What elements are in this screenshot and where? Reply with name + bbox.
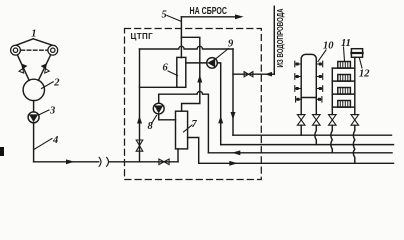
pipe from exchanger 6 bottom to left riser	[140, 86, 177, 88]
right rail	[354, 57, 356, 114]
line 2 return	[221, 144, 394, 146]
CTPG box dashed border	[125, 29, 262, 180]
svg-text:7: 7	[192, 119, 198, 130]
pipe 4 vertical	[33, 123, 35, 162]
flow arrow down on water riser	[231, 112, 236, 120]
arrow on discharge line	[235, 14, 244, 19]
valve on left riser	[136, 140, 143, 151]
radiator rung 3	[332, 93, 355, 95]
waterworks pipe vertical	[273, 6, 275, 74]
pump 3 (circle with triangle)	[28, 112, 39, 123]
left rail to line 3 with jogs	[331, 125, 333, 153]
label 3	[39, 106, 55, 117]
flow arrow into box	[265, 72, 273, 77]
line well A to apex	[16, 39, 33, 45]
radiator rung 2	[332, 80, 355, 82]
label 8	[148, 116, 157, 133]
svg-text:4: 4	[52, 135, 58, 146]
heat exchanger 6	[177, 57, 186, 87]
line well B to apex	[33, 39, 52, 45]
left rail	[331, 68, 333, 115]
arrow left on line 3	[232, 150, 241, 155]
pump 8 riser and H1 header	[159, 91, 209, 152]
pipe break symbol	[99, 157, 108, 166]
valve on leg 2	[313, 115, 321, 126]
pump 9 (circle with triangle)	[207, 58, 218, 69]
svg-text:ЦТПГ: ЦТПГ	[131, 32, 154, 41]
valve on leg 1	[297, 115, 305, 126]
discharge riser	[180, 17, 182, 58]
pump 9 outlet to line 2 riser	[217, 63, 220, 145]
pump 8 (circle with triangle)	[153, 103, 164, 114]
valve on radiator left rail	[329, 115, 337, 126]
valve on water inlet	[244, 72, 253, 77]
svg-text:9: 9	[228, 39, 234, 50]
radiator 1	[338, 62, 351, 69]
pipe exchanger 6 to pump 9	[186, 62, 207, 64]
tank nozzles right	[316, 61, 322, 102]
svg-text:5: 5	[162, 10, 167, 21]
label 1	[31, 29, 36, 40]
flow arrow up on left riser	[137, 116, 142, 124]
radiator 2	[338, 75, 351, 82]
label 4	[34, 135, 59, 150]
valve on suction pipe A	[19, 64, 26, 73]
scan mark left edge	[0, 147, 4, 156]
dashed link between wells	[21, 49, 48, 51]
flow arrow on pipe 4	[66, 159, 75, 164]
svg-text:6: 6	[163, 63, 169, 74]
branch to rect7 feed	[181, 37, 199, 111]
radiator 4	[338, 101, 351, 108]
svg-text:ИЗ ВОДОПРОВОДА: ИЗ ВОДОПРОВОДА	[276, 8, 285, 67]
suction pipe A (well A to deaerator)	[18, 55, 30, 80]
suction pipe B (well B to deaerator)	[38, 55, 50, 80]
tank nozzles left	[295, 61, 301, 102]
flow arrow up on branch vertical	[197, 75, 202, 83]
pipe 4 continues into box	[109, 161, 139, 163]
svg-text:2: 2	[53, 78, 60, 89]
radiator rung 1	[332, 67, 355, 69]
valve on suction pipe B	[42, 64, 50, 73]
tank bottom edge	[301, 97, 316, 99]
NA SBROS discharge line	[181, 16, 236, 18]
label 5	[162, 10, 182, 22]
flow arrow up on line 2 riser	[218, 116, 223, 124]
inlet pipe inside box	[140, 161, 179, 163]
valve on radiator right rail	[351, 115, 359, 126]
line 1 supply	[233, 134, 392, 136]
radiator ladder rails	[332, 57, 355, 114]
tank leg 2	[315, 98, 317, 115]
line 4 with arrow right	[199, 162, 394, 164]
deaerator 2 (circle)	[23, 79, 44, 100]
label 2	[42, 78, 61, 89]
heat exchanger 7	[176, 111, 188, 149]
leg 1 to line 1	[300, 125, 302, 135]
svg-text:НА СБРОС: НА СБРОС	[190, 6, 228, 17]
storage tank 10	[301, 54, 316, 97]
pipe deaerator to pump 3	[33, 101, 35, 112]
leg 2 to line 2 with jog over line 1	[315, 125, 317, 144]
pipe 4 horizontal to box	[34, 161, 99, 163]
left riser of box	[139, 49, 141, 162]
label 7	[184, 119, 198, 132]
line 3 with arrow left	[208, 152, 392, 154]
exchanger 7 bottom feed	[177, 149, 179, 162]
label 9	[216, 39, 235, 60]
water riser down to line 1	[232, 49, 234, 135]
tank leg 1	[300, 98, 302, 115]
main cold water header with hops	[140, 46, 234, 49]
expansion tank 12	[351, 49, 362, 58]
svg-text:11: 11	[341, 38, 351, 49]
svg-text:3: 3	[49, 106, 55, 117]
label 11	[341, 38, 351, 61]
radiator rung 4	[332, 106, 355, 108]
label 10	[318, 41, 334, 62]
svg-text:1: 1	[31, 29, 36, 40]
label 6	[163, 63, 178, 76]
well A (double circle)	[11, 45, 21, 55]
exchanger 7 outlet to line 4	[188, 138, 199, 164]
arrow right on line 4	[229, 161, 238, 166]
svg-text:12: 12	[359, 69, 370, 80]
right rail to line 4 with jogs	[353, 125, 355, 163]
well B (double circle)	[48, 45, 58, 55]
label 12	[359, 59, 370, 80]
pump 8 outlet to exchanger 7	[159, 114, 176, 120]
cold water inlet line from waterworks	[233, 73, 274, 75]
valve on inlet pipe	[159, 159, 169, 165]
svg-text:10: 10	[323, 41, 334, 52]
radiator 3	[338, 88, 351, 95]
